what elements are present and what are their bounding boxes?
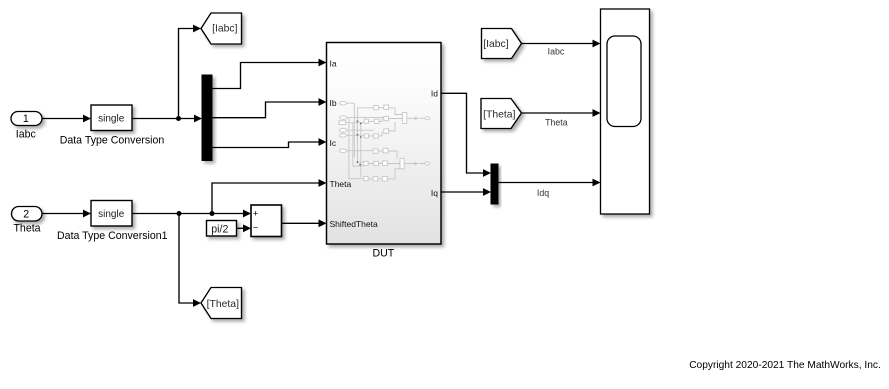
subsystem DUT [327,43,442,245]
svg-text:1: 1 [23,113,29,125]
wire demux out3 to DUT Ic [212,142,319,148]
From [Iabc] [482,29,522,59]
svg-text:Iq: Iq [431,188,438,198]
svg-text:DUT: DUT [373,247,395,259]
svg-text:Iabc: Iabc [16,128,37,140]
svg-text:Data Type Conversion1: Data Type Conversion1 [57,230,168,242]
DUT content preview [346,103,426,179]
svg-text:−: − [253,223,258,233]
wire branch down to goto [Theta] [179,214,194,304]
wire DUT Iq to mux [441,191,484,193]
wire pi/2 to Sum minus input [237,227,244,229]
inport 1 Iabc [11,112,42,126]
svg-text:Theta: Theta [545,117,568,127]
svg-text:ShiftedTheta: ShiftedTheta [330,219,378,229]
wire mux to scope Idq [498,182,593,184]
junction node after DataTypeConversion [176,116,181,121]
inport 2 Theta [12,207,43,222]
sum block [251,205,282,237]
block Data Type Conversion1 [91,201,132,227]
svg-text:Id: Id [431,89,438,99]
wire Sum to DUT ShiftedTheta [282,222,320,224]
svg-text:single: single [98,209,125,220]
svg-text:Data Type Conversion: Data Type Conversion [60,134,165,146]
svg-text:pi/2: pi/2 [211,223,228,235]
svg-text:Copyright 2020-2021 The MathWo: Copyright 2020-2021 The MathWorks, Inc. [689,360,881,371]
wire From [Theta] to scope [522,112,594,114]
svg-text:Idq: Idq [537,188,549,198]
svg-text:[Iabc]: [Iabc] [483,39,509,50]
wire demux out1 to DUT Ia [212,63,319,89]
wire demux out2 to DUT Ib [212,102,319,118]
goto [Theta] [201,288,242,319]
svg-text:Ib: Ib [330,98,337,108]
svg-text:2: 2 [23,209,29,221]
scope screen [607,36,641,127]
mux [491,164,498,204]
wire inport2 to DataTypeConversion1 [42,213,84,215]
wire inport1 to DataTypeConversion [42,118,84,120]
wire DataTypeConversion1 to Sum plus input [132,213,244,215]
goto [Iabc] [201,13,242,44]
junction node theta branch to DUT [210,211,215,216]
svg-text:Theta: Theta [330,179,352,189]
scope [601,9,650,214]
constant pi/2 [207,221,237,237]
wire branch up to goto [Iabc] [179,29,194,119]
wire DataTypeConversion to demux [132,118,195,120]
svg-text:[Theta]: [Theta] [483,109,515,120]
svg-text:Ic: Ic [330,138,337,148]
junction node theta branch to goto [177,211,182,216]
demux [202,75,212,161]
svg-text:[Theta]: [Theta] [207,299,239,310]
wire DUT Id to mux [441,93,484,173]
block Data Type Conversion [91,105,132,131]
svg-text:Ia: Ia [330,59,337,69]
svg-text:Iabc: Iabc [548,47,565,57]
wire branch up to DUT Theta [212,183,319,214]
svg-text:Theta: Theta [13,222,40,234]
wire From [Iabc] to scope [522,43,594,45]
svg-text:+: + [253,208,258,218]
svg-text:[Iabc]: [Iabc] [212,24,238,35]
From [Theta] [481,99,522,129]
svg-text:single: single [98,113,125,124]
